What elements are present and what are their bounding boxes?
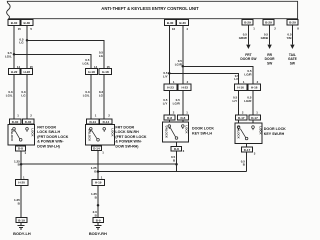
svg-text:& POWER WIN-: & POWER WIN- [37,140,64,144]
svg-text:1: 1 [102,151,104,155]
svg-text:D-30: D-30 [25,120,32,124]
svg-text:B-29: B-29 [244,21,251,25]
svg-text:D-17: D-17 [244,148,251,152]
svg-text:1: 1 [95,114,97,118]
svg-text:DOW SW-RH): DOW SW-RH) [115,145,139,149]
svg-text:B-19: B-19 [18,218,25,222]
svg-text:SW: SW [290,61,296,65]
svg-text:14: 14 [94,65,98,69]
svg-text:LG/R: LG/R [175,62,183,66]
svg-text:DOOR LOCK: DOOR LOCK [264,127,286,131]
svg-text:ANTI-THEFT & KEYLESS ENTRY CON: ANTI-THEFT & KEYLESS ENTRY CONTROL UNIT [101,6,199,11]
svg-text:B-29: B-29 [289,21,296,25]
svg-text:2: 2 [274,27,276,31]
svg-text:LOCK: LOCK [111,128,115,137]
svg-text:2: 2 [242,110,244,114]
svg-text:UNLOCK: UNLOCK [88,129,92,142]
svg-text:B: B [173,158,176,162]
svg-text:LG: LG [99,54,104,58]
svg-text:H-22: H-22 [24,70,31,74]
svg-text:KEY SW-RH: KEY SW-RH [264,132,285,136]
svg-text:L/Y: L/Y [163,74,168,78]
svg-text:4: 4 [186,27,188,31]
svg-text:LG: LG [19,41,24,45]
svg-text:3: 3 [254,152,256,156]
svg-text:FRT DOOR: FRT DOOR [37,125,56,129]
svg-text:B-30: B-30 [24,21,31,25]
svg-text:3: 3 [183,149,185,153]
svg-text:LG/L: LG/L [83,62,90,66]
svg-text:FRT DOOR: FRT DOOR [115,125,134,129]
svg-text:B-30: B-30 [11,21,18,25]
svg-text:LOCK SW-LH: LOCK SW-LH [37,130,60,134]
svg-text:B: B [95,213,98,217]
svg-text:LG/R: LG/R [244,99,252,103]
svg-text:BODY-LH: BODY-LH [13,231,31,236]
svg-text:B: B [243,163,246,167]
svg-text:1: 1 [25,151,27,155]
svg-text:LOCK: LOCK [31,128,35,137]
svg-text:LG/L: LG/L [6,93,13,97]
svg-text:D-17: D-17 [251,116,258,120]
svg-text:D-14: D-14 [89,120,96,124]
svg-text:2: 2 [108,114,110,118]
svg-text:LG/R: LG/R [244,73,252,77]
svg-text:UNLOCK: UNLOCK [10,129,14,142]
svg-text:D-17: D-17 [238,116,245,120]
svg-text:KEY SW-LH: KEY SW-LH [192,131,212,135]
svg-text:UNLOCK: UNLOCK [164,126,168,139]
svg-text:H-22: H-22 [11,70,18,74]
svg-text:GR/W: GR/W [239,36,247,40]
svg-text:B-30: B-30 [167,21,174,25]
svg-text:(FRT DOOR LOCK: (FRT DOOR LOCK [115,135,147,139]
svg-text:DOW SW-LH): DOW SW-LH) [37,145,60,149]
svg-text:B-30: B-30 [179,21,186,25]
svg-text:DOOR SW: DOOR SW [240,57,257,61]
svg-text:H-23: H-23 [181,86,188,90]
svg-text:15: 15 [30,65,34,69]
svg-text:Y/B: Y/B [286,36,292,40]
svg-text:1: 1 [186,110,188,114]
svg-text:L/Y: L/Y [233,99,238,103]
svg-text:B: B [95,196,98,200]
svg-text:SW: SW [267,61,273,65]
svg-text:LG/L: LG/L [5,54,12,58]
svg-text:B: B [18,202,21,206]
svg-text:H-16: H-16 [251,86,258,90]
svg-text:H-20: H-20 [18,181,25,185]
svg-text:2: 2 [30,114,32,118]
svg-text:1: 1 [256,110,258,114]
svg-text:D-8: D-8 [174,147,179,151]
svg-text:H-18: H-18 [102,70,109,74]
svg-text:BODY-RH: BODY-RH [89,231,107,236]
svg-text:D-8: D-8 [18,147,23,151]
svg-text:D-30: D-30 [12,120,19,124]
svg-text:15: 15 [18,27,22,31]
svg-text:D-14: D-14 [93,147,100,151]
svg-text:LG: LG [21,93,26,97]
svg-text:& POWER WIN-: & POWER WIN- [115,140,142,144]
svg-text:5: 5 [30,27,32,31]
svg-text:LOCK SW-RH: LOCK SW-RH [115,130,139,134]
svg-text:H-23: H-23 [167,86,174,90]
svg-text:1: 1 [17,114,19,118]
svg-text:H-16: H-16 [237,86,244,90]
svg-text:GR/B: GR/B [261,36,269,40]
svg-text:LG/L: LG/L [83,93,90,97]
svg-text:D-8: D-8 [180,116,185,120]
svg-text:L/Y: L/Y [234,77,239,81]
svg-text:LOCK: LOCK [259,126,263,135]
svg-text:B-9: B-9 [96,218,101,222]
svg-text:2: 2 [173,110,175,114]
svg-text:H-18: H-18 [88,70,95,74]
svg-text:LG/R: LG/R [173,102,181,106]
svg-text:DOOR LOCK: DOOR LOCK [192,127,214,131]
svg-text:16: 16 [172,27,176,31]
svg-text:15: 15 [107,65,111,69]
svg-text:L/Y: L/Y [163,102,168,106]
svg-text:1: 1 [253,27,255,31]
svg-text:14: 14 [17,65,21,69]
svg-text:LG: LG [99,93,104,97]
svg-text:LOCK: LOCK [185,125,189,134]
svg-text:(FRT DOOR LOCK: (FRT DOOR LOCK [37,135,69,139]
svg-text:B-29: B-29 [265,21,272,25]
svg-text:D-14: D-14 [103,120,110,124]
svg-text:8: 8 [297,27,299,31]
svg-text:D-8: D-8 [167,116,172,120]
svg-text:H-19: H-19 [95,181,102,185]
svg-text:UNLOCK: UNLOCK [237,126,241,139]
